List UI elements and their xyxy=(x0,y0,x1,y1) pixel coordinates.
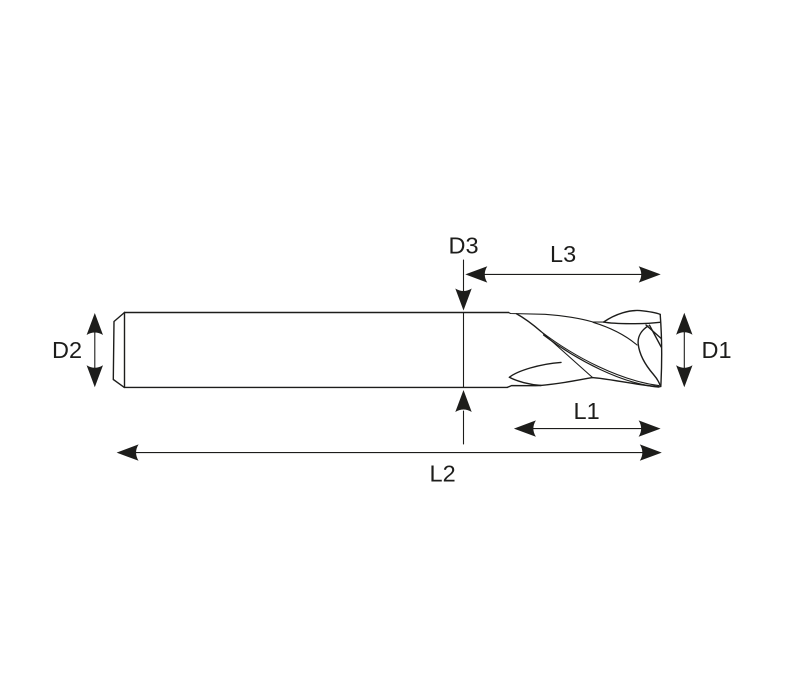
flute steep edge to lower junction xyxy=(541,332,593,378)
dimension arrow L2 xyxy=(117,444,662,460)
svg-text:L3: L3 xyxy=(550,241,576,267)
dimension line D3 lower xyxy=(455,390,471,444)
svg-text:L2: L2 xyxy=(430,461,456,487)
flute land line 2 xyxy=(544,335,659,387)
end cutting edge 2 xyxy=(650,325,662,347)
flute land line 1 xyxy=(541,332,659,386)
lower leaf flute lower curve xyxy=(509,377,541,385)
end cutting edge 1 xyxy=(646,325,661,339)
svg-text:D1: D1 xyxy=(702,337,732,363)
lower leaf flute upper curve xyxy=(509,362,561,377)
dimension arrow L3 xyxy=(465,266,660,282)
end tooth gash arc xyxy=(638,326,660,386)
svg-text:L1: L1 xyxy=(574,398,600,424)
dimension arrow D2 xyxy=(87,313,103,387)
svg-text:D2: D2 xyxy=(52,337,82,363)
end face right edge xyxy=(660,314,661,386)
dimension line D3 through shank xyxy=(463,313,465,388)
dimension line D3 upper xyxy=(455,260,471,311)
dimension arrow L1 xyxy=(514,420,661,436)
top petal upper curve xyxy=(604,310,661,322)
cutter neck bottom edge xyxy=(507,378,659,388)
shank body outline xyxy=(113,313,508,388)
flute hidden edge to end face xyxy=(593,322,637,345)
shank end cap line xyxy=(124,313,126,388)
top petal lower curve xyxy=(604,322,660,324)
svg-text:D3: D3 xyxy=(449,233,479,259)
cutter neck top edge xyxy=(509,313,604,323)
flute edge from neck to cusp xyxy=(517,314,542,332)
dimension arrow D1 xyxy=(676,313,692,388)
